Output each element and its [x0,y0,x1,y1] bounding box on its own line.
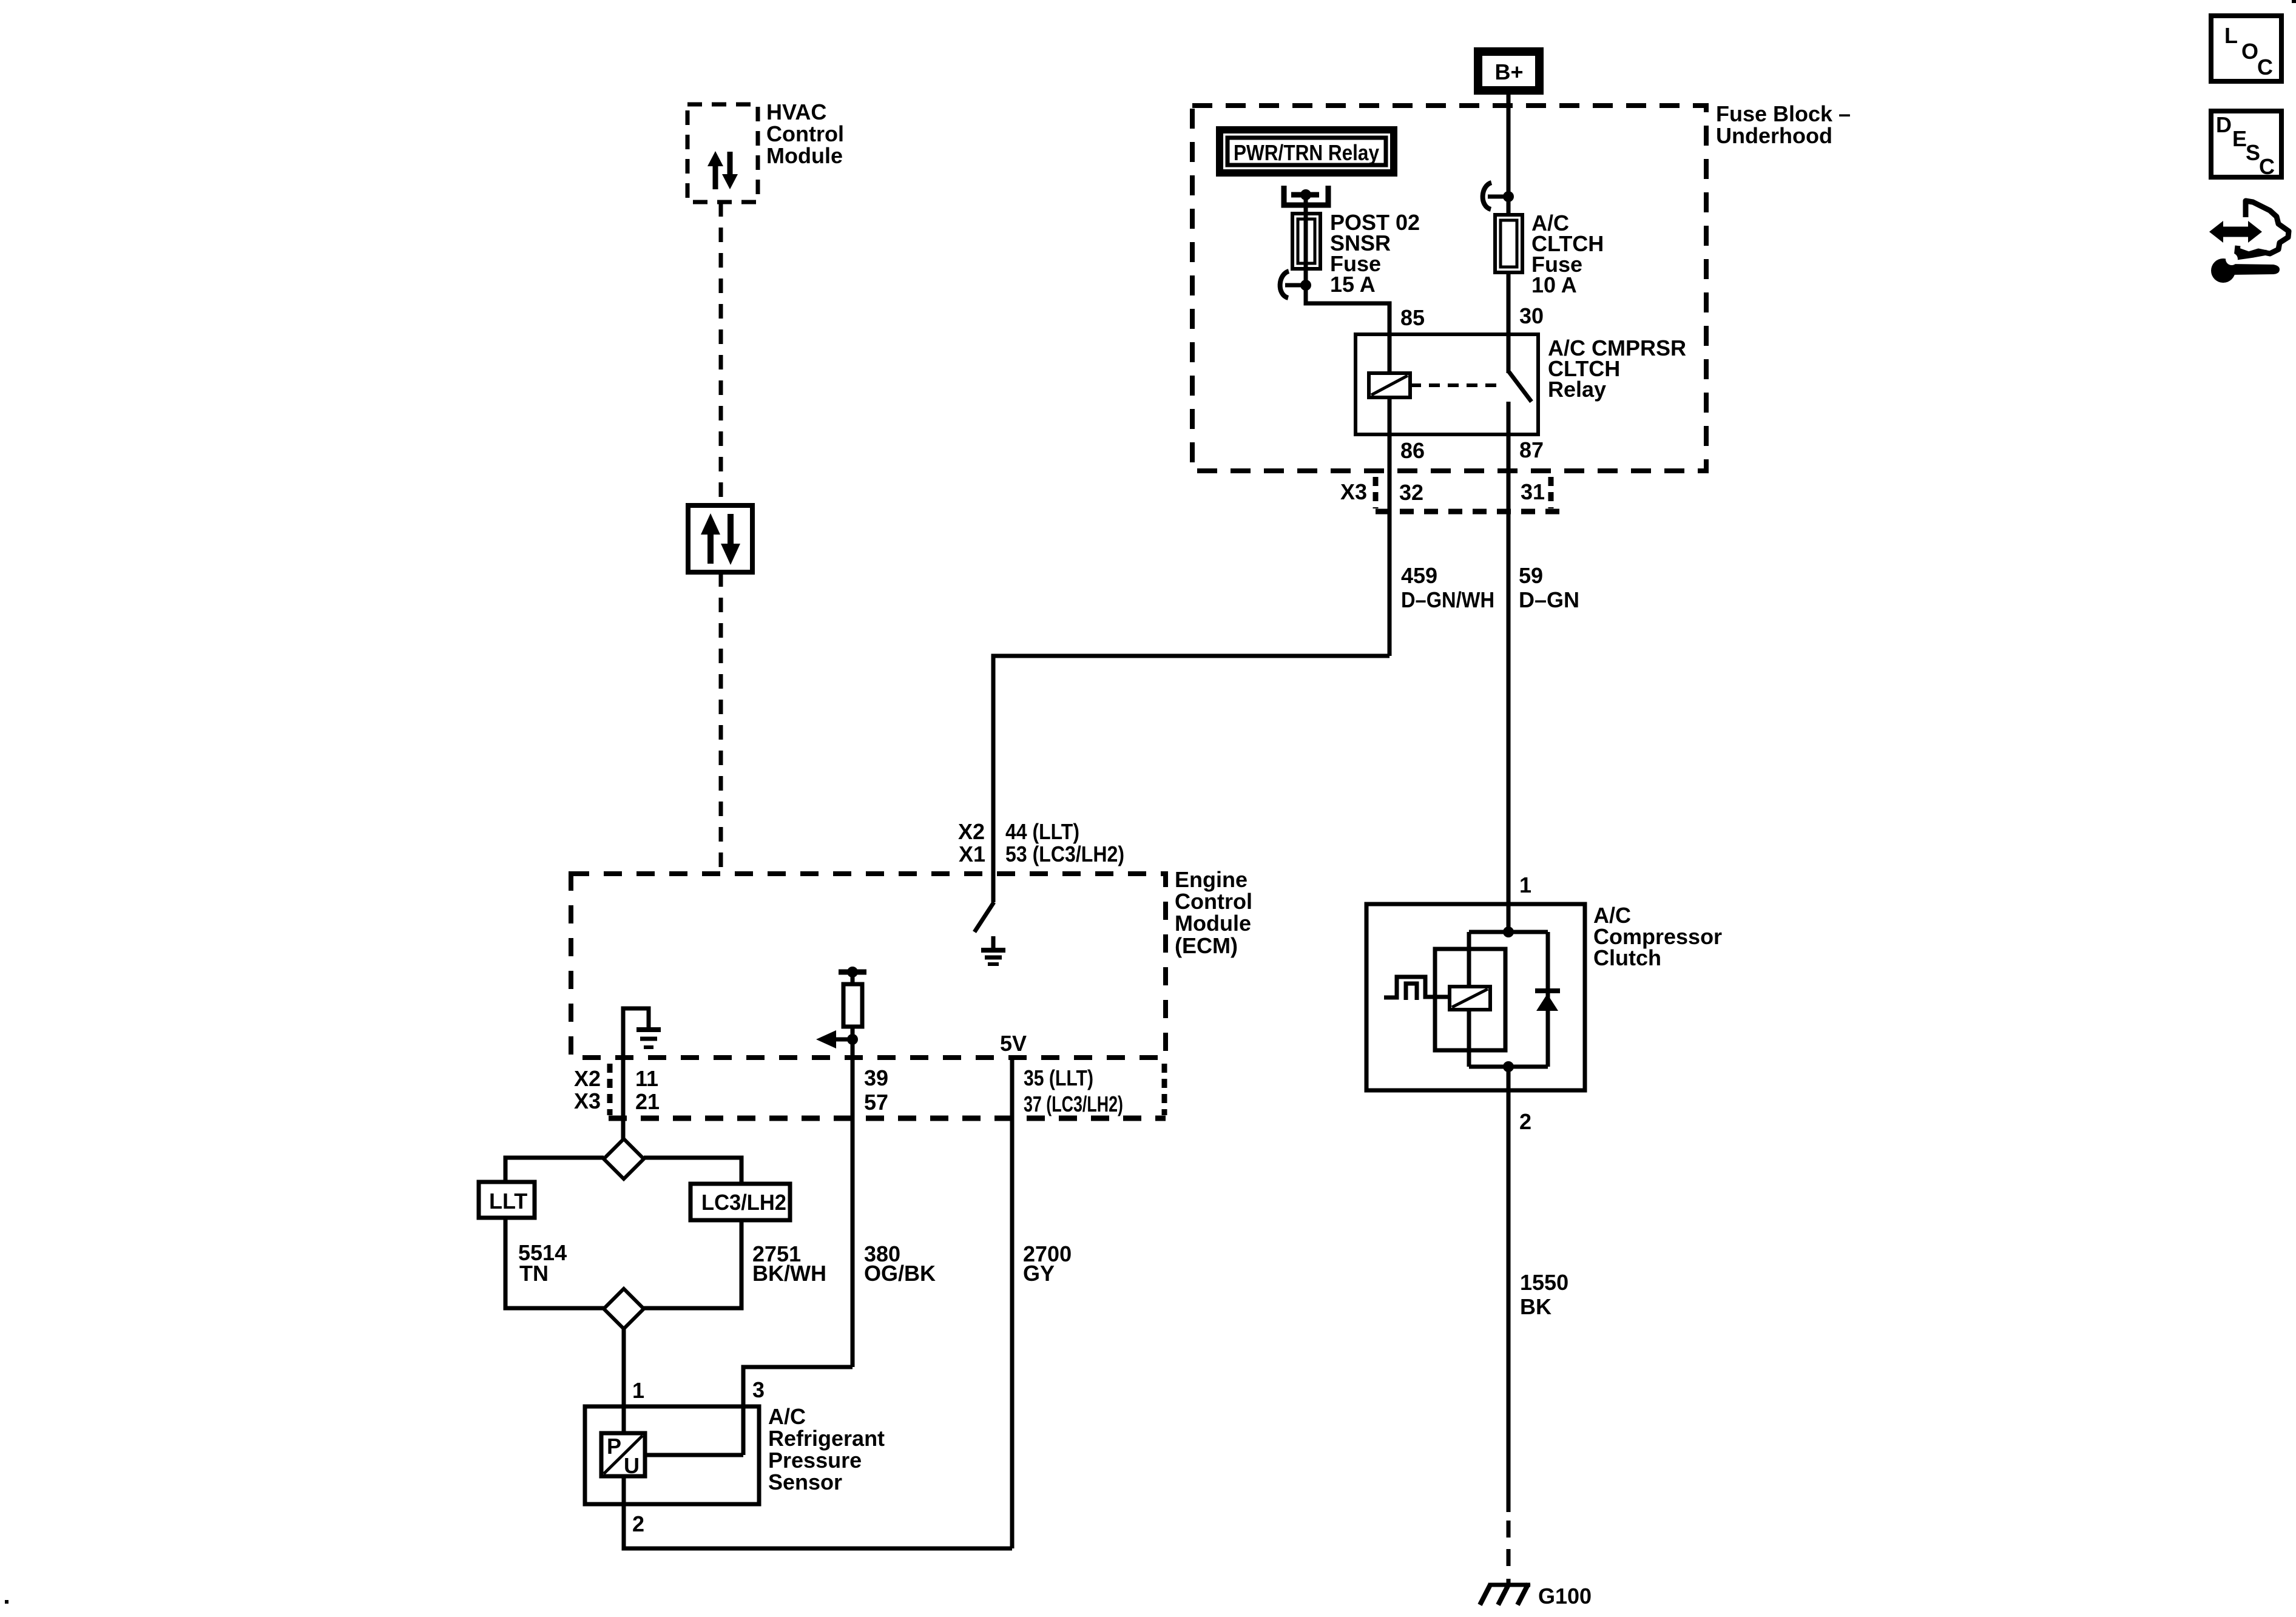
pressure transducer P/U element [601,1433,645,1478]
page corner mark top-right [2292,0,2296,3]
node A (clutch top) [1503,927,1514,937]
svg-text:Control: Control [1175,889,1252,914]
ECM driver switch [974,902,994,932]
wire: 1550 BK ground wire [1507,1090,1511,1512]
svg-text:TN: TN [519,1261,549,1286]
clip terminal at A/C CLTCH fuse input [1483,183,1514,209]
svg-text:S: S [2246,140,2260,165]
POST 02 SNSR Fuse label [1330,210,1420,297]
node B (clutch bottom) [1503,1061,1514,1072]
svg-text:53 (LC3/LH2): 53 (LC3/LH2) [1005,842,1124,866]
ground G100 [1480,1584,1592,1609]
svg-text:Relay: Relay [1548,377,1606,402]
wire: relay coil branch pin 85 to 86 [1388,334,1392,434]
wire: clutch bottom rail [1469,1065,1548,1069]
svg-text:LLT: LLT [489,1189,527,1214]
wire: relay pin 86 down through connector [1388,434,1392,656]
svg-text:1: 1 [632,1378,644,1403]
svg-text:5V: 5V [1000,1031,1027,1056]
A/C Refrigerant Pressure Sensor box [585,1406,759,1504]
B+ battery feed symbol [1474,47,1544,95]
splice diamond upper [604,1139,644,1179]
svg-text:OG/BK: OG/BK [864,1261,936,1286]
svg-text:X3: X3 [1340,479,1367,504]
svg-text:44 (LLT): 44 (LLT) [1005,819,1079,844]
svg-text:BK: BK [1520,1294,1551,1319]
wire: signal 380 from ECM node down [851,1039,855,1367]
svg-text:X2: X2 [574,1066,601,1091]
wire 459 D-GN/WH label [1401,563,1494,612]
svg-text:HVAC: HVAC [766,100,826,124]
wire: dashed continuation to G100 [1507,1521,1511,1585]
wire: 380 OG/BK jog to sensor pin 3 [743,1367,853,1455]
svg-text:31: 31 [1521,479,1545,504]
HVAC Control Module label [766,100,844,168]
suppression diode [1535,932,1560,1067]
wire: clutch top rail [1469,930,1548,934]
resistor (pull-up) [843,984,862,1027]
wire 1550 BK label [1520,1270,1568,1319]
A/C Refrigerant Pressure Sensor label [768,1404,885,1494]
LOC reference box [2211,16,2281,81]
svg-text:3: 3 [752,1377,765,1402]
svg-text:Control: Control [766,121,844,146]
svg-text:(ECM): (ECM) [1175,933,1238,958]
svg-text:X3: X3 [574,1089,601,1113]
wire: POST 02 fuse to relay pin 85 [1306,285,1389,334]
svg-text:Module: Module [766,143,843,168]
svg-text:L: L [2224,23,2238,48]
wire: sensor pin 2 return to ECM 2700 GY [624,1476,1012,1548]
DESC reference box [2211,111,2281,179]
wire: diamond to LLT branch [505,1158,604,1182]
svg-text:2: 2 [632,1511,644,1536]
PWR/TRN Relay reference box [1220,130,1394,173]
LLT application box [479,1182,535,1218]
fuse POST 02 SNSR 15 A [1292,214,1320,269]
wire: resistor to node [851,1027,855,1039]
svg-text:1: 1 [1519,873,1531,897]
svg-text:37 (LC3/LH2): 37 (LC3/LH2) [1024,1092,1123,1116]
wire: transducer output to pin 3 [645,1453,743,1457]
svg-text:D–GN/WH: D–GN/WH [1401,587,1494,612]
svg-text:1550: 1550 [1520,1270,1568,1295]
wire: LLT box to lower diamond [505,1218,604,1308]
Engine Control Module dashed box [571,874,1166,1058]
svg-text:86: 86 [1400,438,1425,463]
clip terminal at POST 02 fuse output [1280,271,1311,298]
svg-text:P: P [607,1434,621,1459]
wire: 459 D-GN/WH run to ECM [993,656,1389,902]
svg-text:GY: GY [1023,1261,1055,1286]
terminal 39/57 labels [864,1065,888,1115]
svg-text:35 (LLT): 35 (LLT) [1024,1065,1093,1090]
svg-text:30: 30 [1519,303,1544,328]
wire: B+ to A/C CLTCH fuse [1507,95,1511,215]
wire: bus to POST 02 SNSR fuse [1304,195,1308,285]
HVAC Control Module dashed box [687,104,758,202]
svg-text:D–GN: D–GN [1519,587,1579,612]
svg-text:X2: X2 [958,819,985,844]
clutch coil inner box [1435,949,1505,1050]
svg-text:Module: Module [1175,911,1251,936]
wire 2751 BK/WH label [752,1241,826,1286]
pin X2 44 / X1 53 labels [958,819,1124,866]
wire 59 D-GN label [1519,563,1579,612]
HVAC serial-data arrows [707,151,738,189]
wire: dashed serial data line continues to ECM [719,572,723,874]
svg-text:459: 459 [1401,563,1437,588]
svg-text:11: 11 [635,1066,658,1091]
svg-text:15 A: 15 A [1330,272,1376,297]
relay actuating dashed link [1410,383,1504,387]
terminal 35/37 labels [1024,1065,1123,1116]
splice diamond lower [604,1289,644,1329]
svg-text:39: 39 [864,1065,888,1090]
LC3/LH2 application box [690,1184,790,1220]
svg-text:Engine: Engine [1175,867,1248,892]
service tool icon [2209,201,2289,283]
wire: 5V reference 2700 GY [1010,1058,1015,1548]
svg-text:59: 59 [1519,563,1543,588]
fuse A/C CLTCH 10 A [1495,215,1522,272]
svg-text:85: 85 [1400,305,1425,330]
wire: diamond to LC3/LH2 branch [644,1158,741,1184]
connector X3 dashed outline [1376,477,1565,511]
ECM pull-up supply bar [839,967,866,977]
wire: LC3/LH2 box to lower diamond [644,1220,741,1308]
svg-text:Refrigerant: Refrigerant [768,1426,885,1451]
ECM internal ground (driver) [981,936,1005,964]
svg-text:32: 32 [1399,480,1423,505]
wire 380 OG/BK label [864,1241,936,1286]
terminal 11/21 labels [635,1066,660,1114]
page corner mark bottom-left [5,1600,8,1604]
svg-text:A/C: A/C [768,1404,806,1429]
Fuse Block - Underhood label [1716,101,1851,148]
serial data arrows box (node) [688,505,752,572]
svg-text:X1: X1 [959,842,985,866]
connector X2/X3 labels [574,1066,601,1113]
svg-text:Sensor: Sensor [768,1470,842,1494]
wire: lower diamond to sensor pin 1 [622,1329,626,1433]
wire 5514 TN label [518,1240,567,1286]
node with signal arrow [816,1030,858,1048]
relay switch contact [1508,334,1531,434]
svg-text:Fuse Block –: Fuse Block – [1716,101,1851,126]
relay coil [1369,373,1410,397]
svg-text:Clutch: Clutch [1593,945,1661,970]
svg-text:Underhood: Underhood [1716,123,1832,148]
svg-text:10 A: 10 A [1531,272,1577,297]
svg-text:21: 21 [635,1089,660,1114]
svg-text:E: E [2232,126,2247,151]
Fuse Block - Underhood dashed box [1192,106,1706,471]
svg-text:G100: G100 [1538,1584,1592,1609]
svg-text:C: C [2257,55,2273,79]
svg-text:O: O [2241,39,2258,64]
bus bar cup under PWR/TRN relay [1284,186,1328,205]
A/C Compressor Clutch label [1593,903,1722,970]
svg-text:B+: B+ [1494,59,1523,84]
mechanical clutch linkage symbol [1384,977,1450,1000]
wire: A/C CLTCH fuse to relay pin 30 [1507,272,1511,334]
svg-text:D: D [2216,112,2232,137]
wire: relay pin 87 down to compressor clutch [1507,434,1511,904]
A/C CMPRSR CLTCH Relay box [1356,334,1538,434]
ECM internal ground branch (low reference) [623,1008,661,1139]
ECM lower connector dashed outline [609,1064,1166,1118]
A/C Compressor Clutch box [1366,904,1585,1090]
A/C CLTCH Fuse label [1531,211,1604,297]
svg-text:BK/WH: BK/WH [752,1261,826,1286]
Engine Control Module label [1175,867,1252,958]
svg-text:2: 2 [1519,1109,1531,1134]
wire: bar to resistor [851,972,855,984]
svg-text:LC3/LH2: LC3/LH2 [701,1190,786,1215]
clutch coil [1450,987,1490,1010]
svg-text:57: 57 [864,1090,888,1115]
wire: coil branch [1467,932,1471,1067]
svg-text:U: U [624,1453,640,1478]
wire: dashed serial data line from HVAC module down [719,202,723,505]
wire 2700 GY label [1023,1241,1072,1286]
svg-text:Pressure: Pressure [768,1448,862,1473]
svg-text:PWR/TRN Relay: PWR/TRN Relay [1234,140,1379,165]
A/C CMPRSR CLTCH Relay label [1548,336,1686,402]
svg-text:C: C [2259,154,2275,179]
svg-text:87: 87 [1519,437,1544,462]
wire: pin 1 into clutch node [1507,904,1511,932]
wire: node to pin 2 [1507,1067,1511,1090]
